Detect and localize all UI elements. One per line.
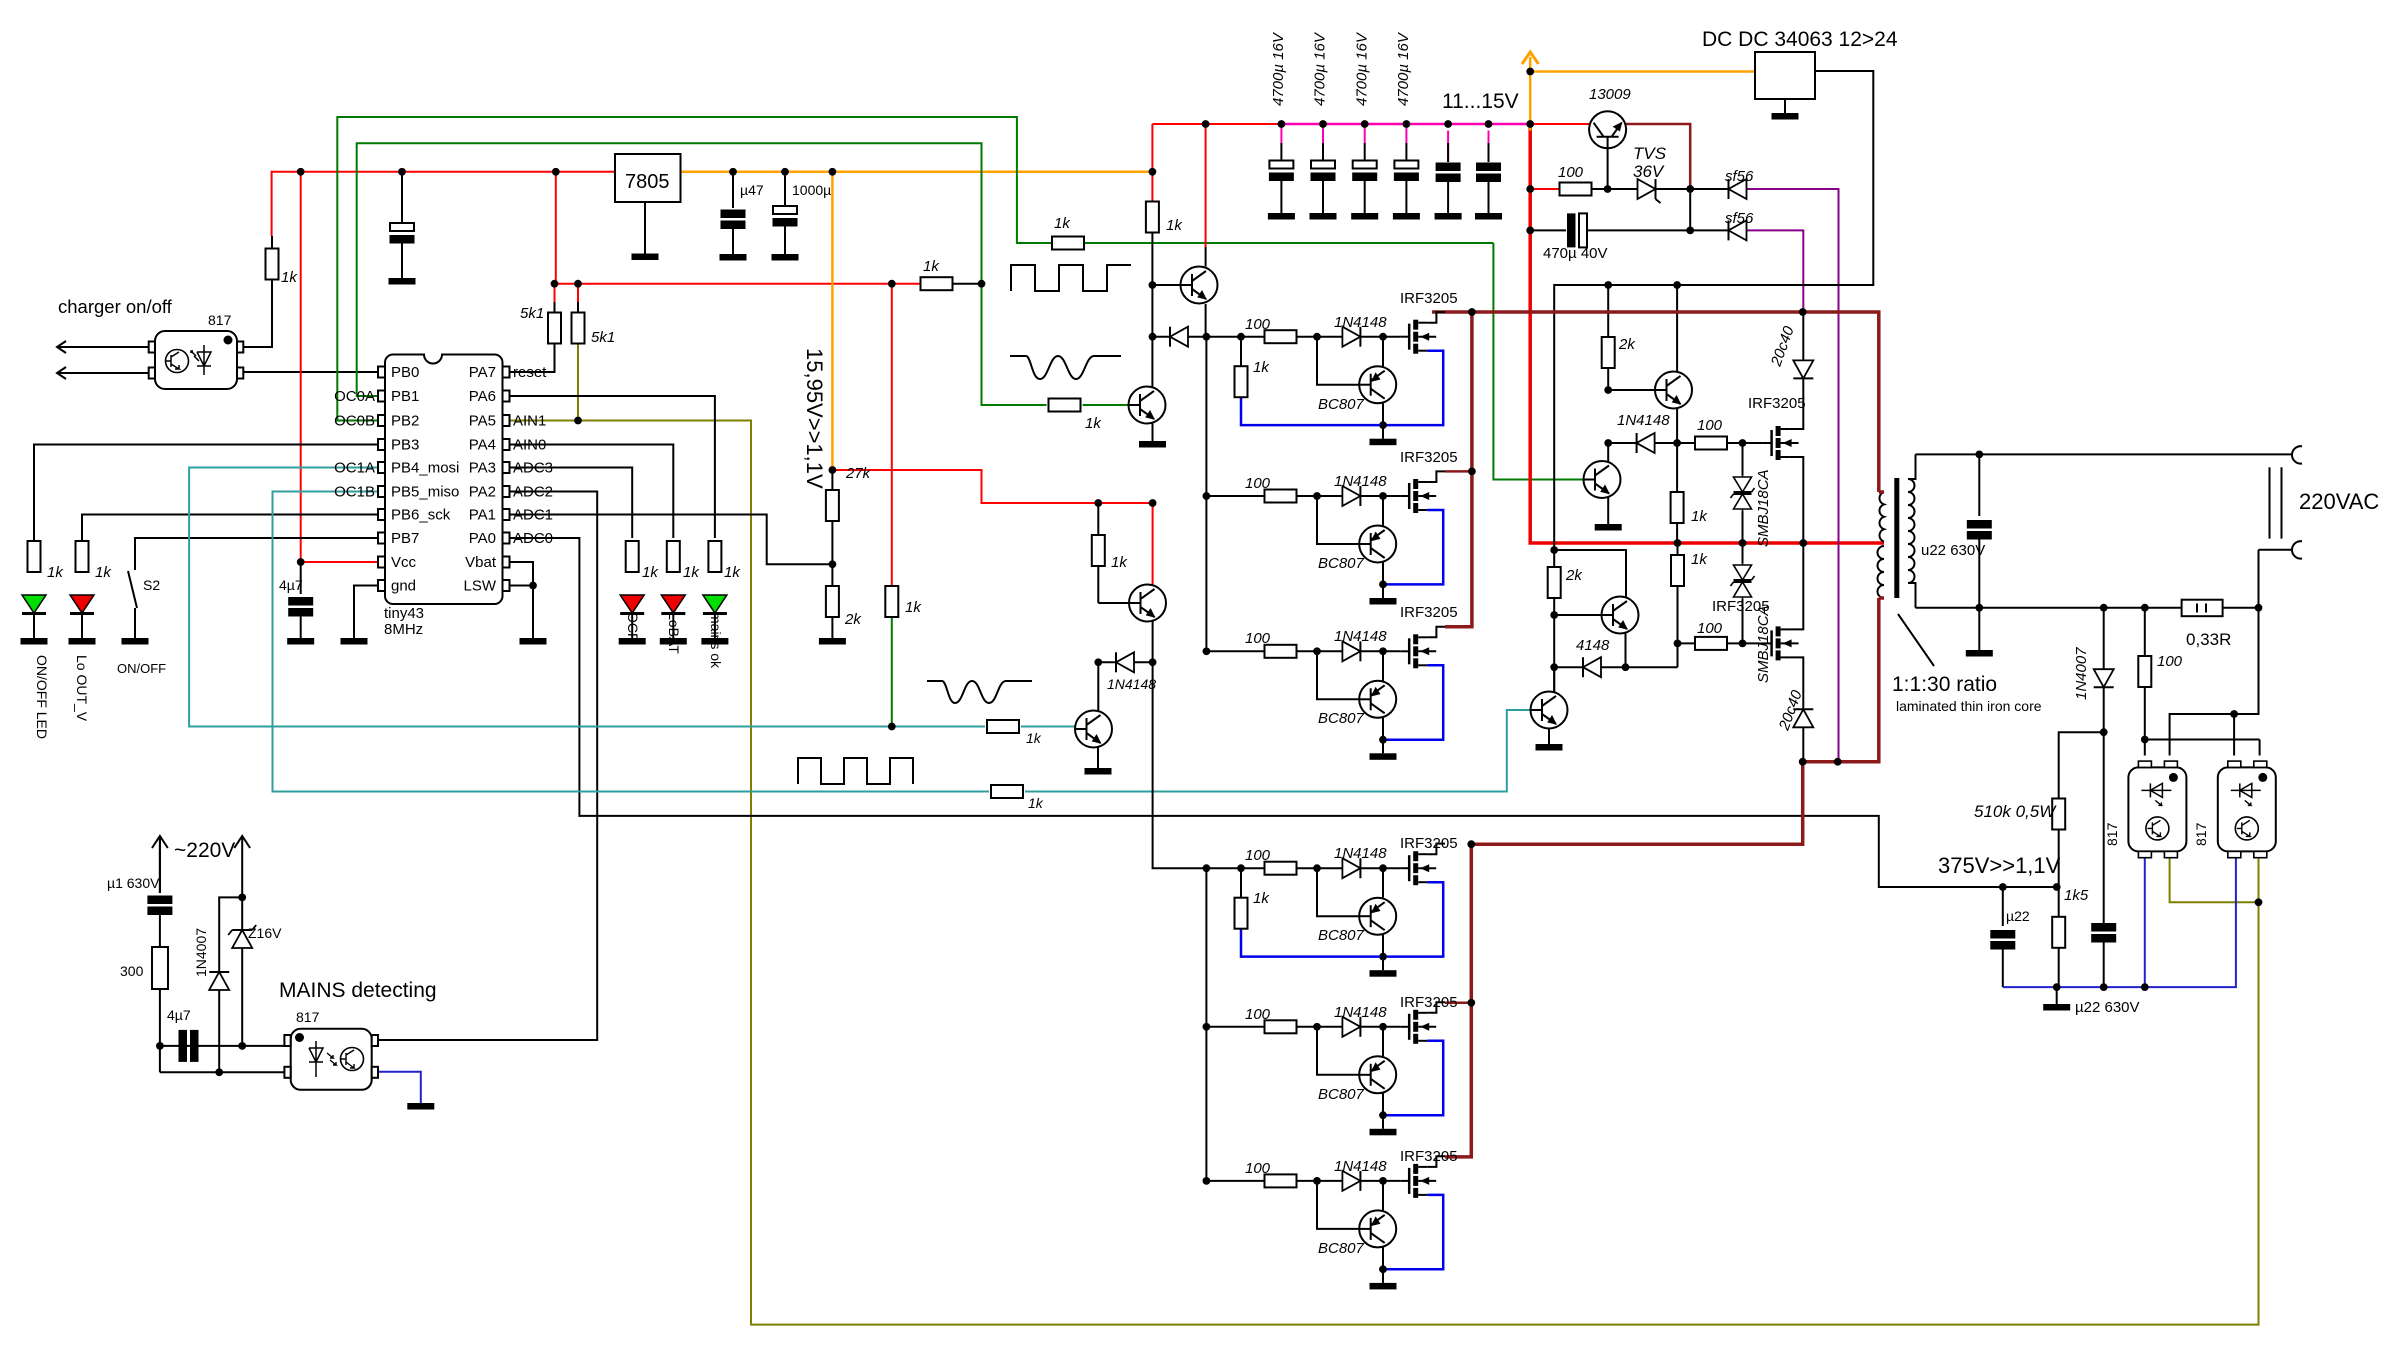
- svg-text:PB5_miso: PB5_miso: [391, 484, 459, 501]
- diode: [1793, 360, 1813, 378]
- svg-text:1k: 1k: [683, 564, 700, 581]
- svg-text:2k: 2k: [844, 611, 862, 628]
- DC DC box: [1755, 52, 1815, 99]
- svg-text:1k: 1k: [1253, 359, 1270, 376]
- svg-text:1k: 1k: [1026, 730, 1042, 746]
- wire maroon bankB vertical: [1445, 844, 1471, 1157]
- svg-text:PA0: PA0: [469, 530, 496, 547]
- svg-text:BC807: BC807: [1318, 396, 1365, 413]
- wire: [159, 912, 161, 947]
- wire green OC0A inner: [357, 143, 1047, 405]
- component body: [378, 462, 385, 473]
- wire: [1790, 457, 1804, 543]
- wire mosfet2 drain/source: [1790, 378, 1804, 429]
- wire: [1097, 662, 1099, 711]
- wire +12V (red): [554, 284, 556, 302]
- symbol detail: [309, 1041, 323, 1077]
- driver Q_cy1: [1097, 747, 1099, 769]
- ground: [720, 254, 747, 261]
- wire Vbat LSW: [509, 562, 533, 586]
- wire AIN1 feedback (olive): [2170, 857, 2259, 902]
- svg-text:13009: 13009: [1589, 86, 1631, 103]
- diode: [1637, 433, 1655, 453]
- wire: [784, 227, 786, 255]
- svg-text:470µ 40V: 470µ 40V: [1543, 245, 1608, 262]
- wire red x892: [891, 284, 893, 586]
- wire AIN1 feedback (olive): [509, 421, 2259, 1325]
- wire 470u row: [1530, 229, 1566, 231]
- svg-text:0,33R: 0,33R: [2186, 630, 2231, 649]
- svg-text:817: 817: [208, 312, 232, 328]
- wire: [1405, 180, 1407, 213]
- wire ADC2 to mains opto: [379, 492, 598, 1041]
- 13009: [1589, 111, 1626, 148]
- svg-text:1k: 1k: [95, 564, 112, 581]
- wire: [1607, 368, 1609, 390]
- wire: [577, 302, 579, 313]
- wire: [1742, 599, 1744, 643]
- ground: [2043, 1004, 2070, 1011]
- diode: [1793, 709, 1813, 727]
- wire +12V (red): [555, 283, 922, 285]
- wire: [401, 244, 403, 279]
- svg-text:µ22 630V: µ22 630V: [2075, 999, 2140, 1016]
- wire: [1097, 566, 1099, 603]
- wire: [1205, 304, 1207, 337]
- ground: [287, 638, 314, 645]
- 0,33R right node paths: [2170, 608, 2259, 756]
- wire +12V (red): [577, 284, 579, 302]
- svg-text:1N4148: 1N4148: [1334, 473, 1387, 490]
- svg-text:7805: 7805: [625, 171, 670, 193]
- svg-text:AIN1: AIN1: [513, 413, 546, 430]
- svg-text:100: 100: [1245, 475, 1271, 492]
- wire: [1655, 442, 1696, 444]
- wire: [2196, 604, 2198, 613]
- wire PB3 row to ON/OFF led: [34, 445, 378, 542]
- wire cyan OC1B: [273, 492, 990, 792]
- svg-text:mains ok: mains ok: [708, 612, 724, 669]
- ground: [1394, 161, 1419, 182]
- wire: [1553, 598, 1555, 692]
- wire: [1727, 442, 1763, 444]
- svg-text:BC807: BC807: [1318, 1086, 1365, 1103]
- svg-text:1k: 1k: [1085, 415, 1102, 432]
- wire OC1 (cyan): [1021, 726, 1076, 728]
- wire 1k1 column: [1676, 443, 1678, 492]
- driver Qt2 green base: [1584, 461, 1621, 498]
- LED LoOUT: [76, 541, 89, 572]
- wire 13009 base: [1607, 148, 1609, 190]
- capacitor: [1967, 520, 1992, 540]
- wire DCDC right loop: [1554, 71, 1873, 567]
- wire red driver collector: [1205, 124, 1207, 247]
- ground: [701, 638, 728, 645]
- wire red bus to 13009: [1530, 123, 1589, 125]
- wire: [2223, 607, 2259, 609]
- capacitor: [2091, 923, 2116, 943]
- marker dot: [341, 1048, 364, 1071]
- wire: [2002, 950, 2004, 988]
- mains zener Z16V: [228, 925, 256, 948]
- wire rectified (purple): [1747, 230, 1804, 310]
- wire green OC0B outer: [337, 117, 1052, 421]
- junction: [297, 558, 305, 566]
- resistor: [708, 541, 721, 572]
- svg-text:1k: 1k: [281, 269, 298, 286]
- wire green x892 to cyan: [891, 617, 893, 727]
- wire battery bus (magenta): [1280, 124, 1282, 143]
- svg-text:ADC2: ADC2: [513, 484, 553, 501]
- svg-text:4148: 4148: [1576, 637, 1610, 654]
- ground: [1139, 441, 1166, 448]
- wire 1k2b column: [1677, 543, 1679, 555]
- resistor: [1671, 555, 1684, 586]
- svg-text:SMBJ18CA: SMBJ18CA: [1755, 469, 1772, 547]
- waveform glyph square2: [798, 758, 913, 784]
- wire: [554, 302, 556, 313]
- wire magenta cap bus: [1281, 123, 1530, 126]
- wire: [219, 897, 242, 972]
- wire PWM (green): [1083, 404, 1129, 406]
- wire: [1280, 180, 1282, 213]
- wire: [2259, 549, 2294, 551]
- wire: [1188, 336, 1206, 338]
- fuse 0,33R: [2182, 600, 2223, 617]
- 1N4148 B left: [1098, 661, 1116, 663]
- junction: [1622, 663, 1630, 671]
- wire PB7 row to switch: [135, 538, 378, 570]
- svg-text:PA4: PA4: [469, 437, 496, 454]
- junction: [2141, 736, 2149, 744]
- svg-text:µ47: µ47: [740, 182, 764, 198]
- component body: [284, 1067, 290, 1078]
- svg-text:36V: 36V: [1633, 162, 1665, 181]
- svg-text:gnd: gnd: [391, 578, 416, 595]
- mains 1N4007 diode: [209, 972, 229, 990]
- wire: [2233, 714, 2235, 756]
- resistor: [1695, 637, 1727, 650]
- wire 7805 gnd: [644, 202, 646, 254]
- wire: [2144, 687, 2146, 756]
- svg-text:1k: 1k: [1166, 217, 1183, 234]
- bank A left feed vertical: [1205, 337, 1207, 652]
- LED: [70, 595, 94, 614]
- marker dot: [224, 336, 233, 345]
- 100 resistor 13009: [1560, 183, 1592, 196]
- TVS suppressor SMBJ18CA: [1731, 563, 1755, 599]
- wire: [2145, 739, 2260, 741]
- capacitor: [1990, 930, 2015, 950]
- wire battery bus (magenta): [1405, 124, 1407, 143]
- wire HV primary (dark red): [1879, 596, 1884, 600]
- wire red divider tap: [832, 470, 1152, 585]
- svg-text:S2: S2: [143, 577, 160, 593]
- MOSFET IRF3205: [1763, 426, 1799, 460]
- gnd u22 630V: [2056, 987, 2058, 1004]
- svg-text:LoBAT: LoBAT: [666, 612, 682, 654]
- wire 4u7 vcc cap: [300, 562, 302, 594]
- symbol detail: [166, 352, 179, 369]
- wire (blue): [2144, 857, 2146, 987]
- wire red thick main: [1530, 124, 1884, 543]
- wire: [1601, 666, 1678, 668]
- wire cyan OC1A: [189, 468, 985, 727]
- wire: [1656, 188, 1729, 190]
- wire SMBJ2 column: [1742, 543, 1744, 563]
- wire: [159, 989, 161, 1046]
- svg-text:sf56: sf56: [1725, 168, 1754, 185]
- marker dot: [295, 1033, 304, 1042]
- sf56 diodes: [1729, 179, 1747, 199]
- component body: [378, 509, 385, 520]
- junction: [1485, 120, 1493, 128]
- junction: [1361, 120, 1369, 128]
- junction: [1526, 227, 1534, 235]
- driver Qt1: [1655, 372, 1692, 409]
- symbol detail: [327, 1053, 336, 1065]
- wire HV primary (dark red): [1879, 490, 1884, 494]
- svg-text:SMBJ18CA: SMBJ18CA: [1755, 605, 1772, 683]
- driver Q_A2: [1152, 424, 1154, 442]
- svg-text:reset: reset: [513, 364, 547, 381]
- svg-text:375V>>1,1V: 375V>>1,1V: [1938, 853, 2061, 878]
- ~220V arrows: [159, 838, 161, 893]
- wire: [672, 614, 674, 638]
- wire: [732, 228, 734, 254]
- bank B feed from QB emitter: [1153, 662, 1207, 868]
- svg-text:laminated thin iron core: laminated thin iron core: [1896, 698, 2042, 714]
- svg-text:100: 100: [1558, 164, 1584, 181]
- ground: [520, 638, 547, 645]
- 1k cyan2: [991, 785, 1023, 798]
- junction: [156, 1042, 164, 1050]
- junction: [888, 723, 896, 731]
- svg-text:IRF3205: IRF3205: [1748, 395, 1806, 412]
- wire: [1488, 181, 1490, 213]
- wire ADC0 long to 375V divider: [509, 538, 2057, 887]
- component body: [237, 368, 243, 379]
- ground: [1085, 768, 1112, 775]
- svg-text:ON/OFF LED: ON/OFF LED: [34, 655, 50, 739]
- LED: [661, 595, 685, 614]
- 1k x892: [885, 586, 898, 617]
- electrolytic capacitor: [773, 206, 798, 227]
- wire red top bus: [272, 172, 615, 236]
- transformer secondary winding: [1908, 479, 1915, 583]
- opto 817 charger: [155, 331, 237, 389]
- mains resistor 300: [152, 947, 168, 989]
- wire: [234, 836, 250, 848]
- OCP LoBAT mains LEDs: [626, 541, 639, 572]
- junction: [1604, 386, 1612, 394]
- junction: [1149, 333, 1157, 341]
- svg-text:5k1: 5k1: [591, 329, 615, 346]
- component body: [237, 342, 243, 353]
- junction: [297, 168, 305, 176]
- svg-text:5k1: 5k1: [520, 305, 544, 322]
- svg-text:AIN0: AIN0: [513, 437, 546, 454]
- component body: [372, 1067, 378, 1078]
- svg-text:1N4148: 1N4148: [1617, 412, 1670, 429]
- wire: [953, 283, 982, 285]
- wire 4148 row lower: [1554, 666, 1583, 668]
- wire mains opto blue out: [379, 1072, 421, 1103]
- resistor: [826, 586, 839, 617]
- wire AIN1 feedback (olive): [2258, 857, 2260, 902]
- 1k QB base: [1092, 535, 1105, 566]
- waveform glyph square1: [1011, 265, 1131, 291]
- transistor NPN: [1075, 711, 1112, 748]
- wire mu47: [732, 172, 734, 208]
- ground: [407, 1103, 434, 1110]
- wire cap bank bottoms: [1281, 180, 1488, 213]
- switch S2 arm: [128, 571, 137, 608]
- wire battery bus (magenta): [1447, 131, 1449, 163]
- ground: [1536, 744, 1563, 751]
- wire red 100 feed: [1530, 188, 1560, 190]
- svg-text:PA3: PA3: [469, 460, 496, 477]
- svg-text:ON/OFF: ON/OFF: [117, 661, 166, 676]
- wire: [2281, 467, 2283, 538]
- switch gnd: [122, 638, 149, 645]
- resistor: [2138, 656, 2151, 687]
- component body: [378, 557, 385, 568]
- wire: [831, 522, 833, 587]
- ground: [1476, 163, 1501, 183]
- svg-text:OC1A: OC1A: [334, 460, 375, 477]
- svg-text:PB2: PB2: [391, 413, 419, 430]
- svg-text:Vcc: Vcc: [391, 554, 417, 571]
- junction: [978, 280, 986, 288]
- svg-text:4µ7: 4µ7: [279, 577, 303, 593]
- wire: [1656, 199, 1661, 203]
- TVS suppressor SMBJ18CA: [1731, 475, 1755, 511]
- wire SMBJ1 column: [1742, 443, 1744, 475]
- 7805: [615, 154, 681, 202]
- svg-text:tiny43: tiny43: [384, 605, 424, 622]
- 1N4007 column: [2103, 608, 2105, 670]
- junction: [551, 280, 559, 288]
- mu47 1000u caps: [721, 210, 746, 230]
- svg-text:1N4007: 1N4007: [2073, 647, 2090, 700]
- wire HV primary (dark red): [1445, 1002, 1471, 1005]
- component body: [284, 1035, 290, 1046]
- svg-text:PA2: PA2: [469, 484, 496, 501]
- wire: [1790, 657, 1804, 709]
- svg-text:PA7: PA7: [469, 364, 496, 381]
- svg-text:8MHz: 8MHz: [384, 621, 423, 638]
- svg-text:1k5: 1k5: [2064, 887, 2089, 904]
- component body: [378, 367, 385, 378]
- junction: [2053, 883, 2061, 891]
- driver Qcy: [1531, 692, 1568, 729]
- component body: [503, 509, 510, 520]
- wire: [152, 836, 168, 848]
- diode: [1583, 657, 1601, 677]
- wire sf56 purple outs: [1747, 189, 1839, 762]
- component body: [503, 462, 510, 473]
- wire: [831, 617, 833, 638]
- wire: [81, 614, 83, 638]
- svg-text:charger on/off: charger on/off: [58, 296, 173, 317]
- ground: [1436, 163, 1461, 183]
- wire Qt1 emitter to 443: [1676, 407, 1678, 443]
- junction: [2141, 983, 2149, 991]
- wire: [2103, 943, 2105, 988]
- svg-text:PB0: PB0: [391, 364, 419, 381]
- wire orange 27k drop: [831, 172, 834, 470]
- wire: [1134, 661, 1153, 663]
- junction: [1550, 546, 1558, 554]
- svg-text:1k: 1k: [1054, 215, 1071, 232]
- wire 100B row: [1678, 642, 1697, 644]
- wire TVS row: [1591, 188, 1638, 190]
- 5k1 resistors: [548, 313, 561, 344]
- svg-text:1k: 1k: [1691, 551, 1708, 568]
- ground: [1352, 161, 1377, 182]
- wire: [2103, 687, 2105, 923]
- wire: [2292, 541, 2302, 558]
- resistor: [2052, 799, 2065, 830]
- diode: [2094, 669, 2114, 687]
- wire Qt1 collector: [1676, 285, 1678, 373]
- wire: [714, 614, 716, 638]
- lower cluster parts: [1548, 567, 1561, 598]
- svg-text:PA6: PA6: [469, 388, 496, 405]
- wire: [218, 990, 220, 1072]
- wire 13009 emitter maroon: [1626, 124, 1690, 189]
- svg-text:100: 100: [1245, 316, 1271, 333]
- resistor: [1671, 492, 1684, 523]
- bank B groups: [1203, 844, 1446, 977]
- wire: [1587, 229, 1729, 231]
- wire Qt2 collector/emitter: [1607, 443, 1609, 462]
- gate driver group: resistor 100, diode 1N4148, transistor BC807, MOSFET IRF3205, ground: [1203, 1156, 1446, 1289]
- driver Q_D1: [1152, 284, 1180, 286]
- svg-text:OCP: OCP: [625, 612, 641, 642]
- junction: [1739, 439, 1747, 447]
- svg-text:1k: 1k: [47, 564, 64, 581]
- wire: [241, 948, 243, 1046]
- wire (orange): [1529, 57, 1532, 131]
- svg-text:BC807: BC807: [1318, 710, 1365, 727]
- wire: [1908, 454, 1916, 479]
- wire mains 220V left column: [159, 838, 161, 893]
- 1k cyan1: [987, 720, 1019, 733]
- waveform glyph sine1: [1010, 356, 1121, 379]
- mains cap u1 630V: [147, 896, 172, 916]
- core label line: [1898, 614, 1934, 666]
- 4u7 cap: [288, 597, 313, 617]
- ground: [341, 638, 368, 645]
- junction: [1467, 999, 1475, 1007]
- LED ON/OFF: [28, 541, 41, 572]
- wire orange DCDC: [1530, 70, 1755, 73]
- svg-text:sf56: sf56: [1725, 210, 1754, 227]
- 27k 2k divider: [826, 490, 839, 521]
- svg-text:100: 100: [1697, 417, 1723, 434]
- svg-text:1N4148: 1N4148: [1334, 1004, 1387, 1021]
- wire battery bus (magenta): [1488, 131, 1490, 163]
- gate driver group: resistor 100, diode 1N4148, transistor BC807, MOSFET IRF3205, ground: [1203, 627, 1446, 760]
- svg-text:PB3: PB3: [391, 437, 419, 454]
- svg-text:11...15V: 11...15V: [1442, 90, 1519, 113]
- svg-text:IRF3205: IRF3205: [1400, 994, 1458, 1011]
- diode: [1116, 652, 1134, 672]
- wire: [1364, 180, 1366, 213]
- svg-text:u22 630V: u22 630V: [1921, 542, 1985, 559]
